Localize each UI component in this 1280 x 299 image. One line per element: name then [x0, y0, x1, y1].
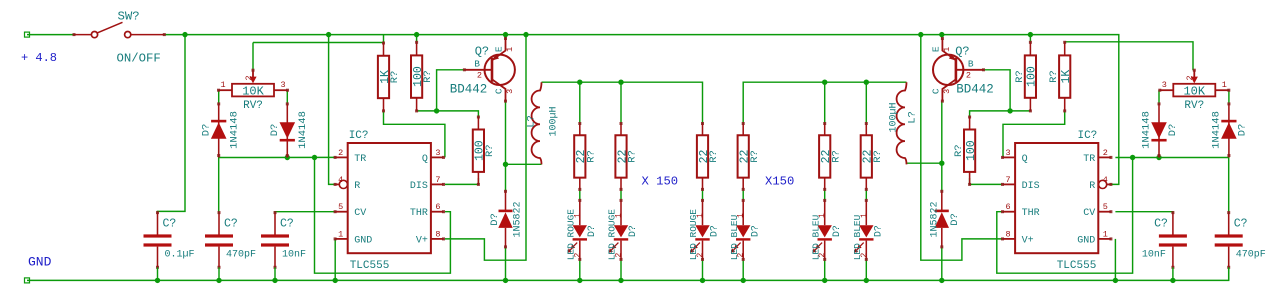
svg-text:D?: D? — [831, 225, 842, 237]
junction: right D5 to timing node — [1156, 155, 1161, 160]
svg-text:GND: GND — [1077, 235, 1095, 246]
wire: rail to left 100R top — [416, 35, 418, 43]
wire: left LED supply rail — [542, 82, 703, 123]
svg-text:7: 7 — [1006, 175, 1011, 185]
resistor R7 22 (LED branch 4) — [738, 122, 761, 191]
svg-text:1N4148: 1N4148 — [297, 111, 309, 149]
svg-text:R?: R? — [749, 150, 761, 163]
LED D11 LED BLEU (branch 5) — [810, 199, 842, 261]
wire: branch x=866.3 LED to ground — [865, 259, 867, 280]
wire: left DIS to 100R bottom — [445, 178, 479, 184]
svg-text:D?: D? — [1167, 124, 1179, 137]
svg-text:L?: L? — [907, 111, 919, 124]
svg-text:THR: THR — [1022, 208, 1040, 219]
wire: TR to THR loop (left) — [315, 158, 451, 274]
wire: Q2 base down to base node — [982, 70, 1010, 111]
diode D1 1N4148 (left, cathode up) — [201, 102, 241, 157]
op-amp U2 TLC555 (right timer) — [1001, 130, 1112, 272]
wire: branch x=866.3 resistor to LED — [865, 189, 867, 200]
svg-text:R?: R? — [389, 71, 401, 84]
svg-text:C?: C? — [1234, 218, 1248, 231]
svg-text:3: 3 — [280, 80, 285, 90]
svg-text:8: 8 — [435, 229, 440, 239]
wire: branch 1 drop — [579, 82, 581, 123]
svg-text:2: 2 — [1103, 148, 1108, 158]
svg-text:1N4148: 1N4148 — [229, 111, 241, 149]
wire: ground rail — [27, 267, 1229, 280]
svg-text:2: 2 — [737, 253, 746, 258]
diode D3 1N5822 (left schottky) — [489, 190, 524, 249]
junction: LED branch 5 — [822, 80, 827, 85]
inductor L2 100uH (right) — [889, 82, 919, 164]
svg-text:2: 2 — [477, 70, 482, 80]
svg-text:E: E — [930, 46, 941, 52]
svg-text:V+: V+ — [416, 235, 428, 246]
svg-text:THR: THR — [410, 208, 428, 219]
junction: TR/THR tie point — [312, 155, 317, 160]
svg-text:1: 1 — [338, 229, 343, 239]
svg-text:C: C — [930, 88, 941, 94]
svg-text:1: 1 — [818, 213, 827, 218]
wire: rail down to left 555 V+ pin — [445, 35, 526, 261]
svg-text:R?: R? — [872, 150, 884, 163]
wire: branch x=702.5 resistor to LED — [702, 189, 704, 200]
svg-text:BD442: BD442 — [956, 82, 994, 96]
svg-text:ON/OFF: ON/OFF — [117, 52, 161, 66]
junction: ground rail at x=1115.4 — [1113, 278, 1118, 283]
op-amp U1 TLC555 (left timer) — [334, 130, 445, 272]
junction: ground rail at x=824.7 — [822, 278, 827, 283]
wire: left 555 GND pin down — [334, 239, 336, 281]
svg-text:CV: CV — [354, 208, 366, 219]
svg-text:Q?: Q? — [955, 44, 969, 58]
resistor R11 100 (right) — [1014, 41, 1039, 113]
diode D4 1N5822 (right schottky) — [930, 190, 961, 249]
svg-text:1: 1 — [942, 47, 952, 52]
diode D2 1N4148 (left, cathode down) — [269, 102, 309, 157]
LED D10 LED BLEU (branch 4) — [729, 199, 761, 261]
svg-text:X 150: X 150 — [642, 174, 679, 188]
wire: schottky D3 to ground rail — [505, 247, 507, 281]
wire: timing node down to C 470pF — [218, 158, 220, 213]
resistor R10 100 (right base drive) — [953, 116, 978, 186]
svg-text:R: R — [1089, 181, 1095, 192]
node: +4.8 supply input end — [25, 32, 30, 37]
svg-text:R: R — [354, 181, 360, 192]
LED D8 LED ROUGE (branch 2) — [607, 199, 639, 261]
junction: ground rail at x=702.5 — [700, 278, 705, 283]
junction: base node tap — [434, 108, 439, 113]
svg-text:6: 6 — [435, 202, 440, 212]
svg-text:IC?: IC? — [1077, 130, 1097, 142]
wire: branch x=743.2 resistor to LED — [742, 189, 744, 200]
svg-text:R?: R? — [422, 70, 434, 83]
svg-text:RV?: RV? — [1184, 100, 1204, 112]
svg-text:1: 1 — [696, 213, 705, 218]
junction: ground rail at x=866.3 — [864, 278, 869, 283]
wire: Q2 collector down to D4 schottky — [941, 101, 943, 191]
svg-text:0.1µF: 0.1µF — [165, 250, 195, 261]
svg-text:TR: TR — [1083, 154, 1095, 165]
svg-text:Q: Q — [1022, 154, 1028, 165]
svg-text:2: 2 — [818, 253, 827, 258]
wire: right DIS to 100R bottom — [970, 178, 1003, 184]
wire: right CV to C 10nF — [1115, 211, 1173, 214]
svg-text:C?: C? — [163, 218, 177, 231]
svg-text:1N5822: 1N5822 — [930, 201, 941, 237]
svg-text:1: 1 — [573, 213, 582, 218]
junction: ground rail at x=579.8 — [577, 278, 582, 283]
junction: ground rail at x=743.2 — [741, 278, 746, 283]
svg-text:2: 2 — [1185, 75, 1195, 80]
svg-text:D?: D? — [586, 225, 597, 237]
potentiometer RV2 10K (right) — [1158, 69, 1230, 112]
transistor Q2 BD442 (right PNP) — [930, 37, 993, 103]
wire: branch x=743.2 LED to ground — [742, 259, 744, 280]
wire: coil bottom to collector node — [506, 163, 542, 165]
junction: rail to left Q1 emitter — [503, 32, 508, 37]
svg-text:D?: D? — [489, 213, 501, 226]
svg-text:10K: 10K — [1183, 85, 1205, 99]
svg-text:RV?: RV? — [243, 100, 263, 112]
resistor R5 22 (LED branch 2) — [615, 122, 638, 191]
wire: left pot pin3 to D2 cathode — [286, 90, 288, 104]
svg-text:TLC555: TLC555 — [1057, 260, 1097, 272]
wire: right Q out to 1K bottom — [1002, 111, 1064, 157]
wire: left pot wiper to 1K top — [253, 42, 384, 44]
svg-text:B: B — [474, 58, 480, 69]
svg-text:7: 7 — [435, 175, 440, 185]
wire: base node up to Q1 base — [437, 70, 465, 111]
wire: right TR to THR loop — [997, 158, 1133, 274]
wire: Q1 collector down to D3 schottky — [505, 101, 507, 191]
svg-text:L?: L? — [526, 115, 538, 128]
svg-text:R?: R? — [627, 150, 639, 163]
switch SW1 ON/OFF — [73, 10, 166, 66]
wire: right pot pin1 to D6 — [1228, 90, 1230, 104]
wire: V+ top rail (switch to right 555 reset pull-up) — [164, 35, 1119, 185]
svg-text:D?: D? — [269, 124, 281, 137]
svg-text:B: B — [968, 58, 974, 69]
diode D6 1N4148 (right, cathode up) — [1210, 102, 1248, 157]
junction: collector / coil node — [503, 162, 508, 167]
svg-text:100: 100 — [965, 140, 978, 161]
svg-text:+ 4.8: + 4.8 — [21, 51, 57, 65]
wire: right 1K stub — [1064, 41, 1066, 44]
resistor R8 22 (LED branch 5) — [819, 122, 842, 191]
svg-text:4: 4 — [338, 175, 343, 185]
svg-text:Q?: Q? — [475, 44, 489, 58]
svg-text:1: 1 — [1222, 80, 1227, 90]
svg-text:D?: D? — [749, 225, 760, 237]
svg-text:DIS: DIS — [1022, 181, 1040, 192]
LED D9 LED ROUGE (branch 3) — [688, 199, 720, 261]
svg-text:3: 3 — [505, 89, 515, 94]
svg-text:D?: D? — [1237, 124, 1249, 137]
svg-text:Q: Q — [422, 154, 428, 165]
svg-text:1K: 1K — [1060, 70, 1073, 84]
LED D12 LED BLEU (branch 6) — [852, 199, 884, 261]
wire: left timing node rail (diodes to TR) — [219, 156, 336, 158]
junction: ground rail at x=275 — [272, 278, 277, 283]
svg-text:3: 3 — [1006, 148, 1011, 158]
svg-text:1: 1 — [505, 47, 515, 52]
LED D7 LED ROUGE (branch 1) — [565, 199, 597, 261]
svg-text:C: C — [494, 88, 505, 94]
svg-text:SW?: SW? — [118, 10, 140, 24]
svg-text:2: 2 — [615, 253, 624, 258]
svg-text:1: 1 — [860, 213, 869, 218]
svg-text:V+: V+ — [1022, 235, 1034, 246]
svg-text:R?: R? — [484, 144, 496, 157]
svg-text:3: 3 — [435, 148, 440, 158]
junction: rail to right 100R — [1028, 32, 1033, 37]
svg-text:R?: R? — [1014, 70, 1026, 83]
wire: schottky D4 to ground rail — [941, 247, 943, 281]
wire: right timing node down to C 470pF — [1228, 158, 1230, 213]
svg-text:R?: R? — [1048, 70, 1060, 83]
resistor R1 1K (left) — [378, 42, 401, 113]
capacitor C2 470pF — [205, 211, 256, 280]
svg-text:IC?: IC? — [349, 130, 369, 142]
svg-text:1: 1 — [1103, 229, 1108, 239]
svg-text:10nF: 10nF — [282, 250, 306, 261]
wire: branch 6 drop — [865, 82, 867, 123]
svg-text:5: 5 — [1103, 202, 1108, 212]
junction: ground rail at x=1172.9 — [1170, 278, 1175, 283]
capacitor C4 10nF (right) — [1142, 211, 1187, 280]
junction: ground rail at x=219 — [216, 278, 221, 283]
node: ground rail left end — [25, 278, 30, 283]
svg-text:D?: D? — [709, 225, 720, 237]
svg-text:DIS: DIS — [410, 181, 428, 192]
wire: 1K top stub — [383, 35, 385, 43]
svg-text:CV: CV — [1083, 208, 1095, 219]
resistor R4 22 (LED branch 1) — [574, 122, 597, 191]
svg-text:C?: C? — [224, 218, 238, 231]
svg-text:1N4148: 1N4148 — [1210, 111, 1222, 149]
junction: ground rail at x=621 — [618, 278, 623, 283]
svg-text:3: 3 — [942, 89, 952, 94]
svg-text:100: 100 — [1026, 66, 1039, 87]
svg-text:10K: 10K — [242, 85, 264, 99]
svg-text:D?: D? — [873, 225, 884, 237]
svg-text:GND: GND — [28, 255, 52, 270]
junction: rail to left V+ drop — [523, 32, 528, 37]
junction: ground rail at x=505.5 — [503, 278, 508, 283]
junction: LED branch 6 — [864, 80, 869, 85]
svg-text:8: 8 — [1006, 229, 1011, 239]
svg-text:2: 2 — [696, 253, 705, 258]
svg-text:470pF: 470pF — [1236, 250, 1266, 261]
svg-text:2: 2 — [860, 253, 869, 258]
svg-text:E: E — [494, 46, 505, 52]
wire: right coil bottom to collector node — [907, 162, 942, 164]
svg-text:R?: R? — [585, 150, 597, 163]
svg-text:2: 2 — [966, 70, 971, 80]
resistor R6 22 (LED branch 3) — [697, 122, 720, 191]
svg-text:GND: GND — [354, 235, 372, 246]
svg-text:TLC555: TLC555 — [350, 260, 390, 272]
svg-text:2: 2 — [244, 75, 254, 80]
wire: right LED supply rail — [743, 82, 906, 123]
svg-text:R?: R? — [953, 144, 965, 157]
inductor L1 100uH (left) — [526, 82, 560, 164]
wire: branch x=579.8 resistor to LED — [579, 189, 581, 200]
wire: left base node (100R bottom to 100R top) — [417, 111, 479, 117]
svg-text:1N5822: 1N5822 — [513, 201, 524, 237]
wire: C 10nF to left CV pin — [275, 211, 335, 214]
junction: rail to left 100R — [414, 32, 419, 37]
wire: branch x=621 LED to ground — [620, 259, 622, 280]
junction: LED branch 1 — [577, 80, 582, 85]
junction: right collector / coil node — [939, 161, 944, 166]
wire: branch x=702.5 LED to ground — [702, 259, 704, 280]
wire: branch x=621 resistor to LED — [620, 189, 622, 200]
junction: ground rail at x=157.5 — [155, 278, 160, 283]
resistor R2 100 (left) — [411, 41, 434, 113]
svg-text:5: 5 — [338, 202, 343, 212]
svg-text:2: 2 — [573, 253, 582, 258]
wire: right 1K top to right pot wiper — [1065, 42, 1193, 70]
wire: branch x=579.8 LED to ground — [579, 259, 581, 280]
wire: left Q out to 1K bottom — [384, 111, 445, 157]
wire: right timing node rail — [1115, 157, 1228, 159]
svg-text:1: 1 — [737, 213, 746, 218]
wire: right base node line — [970, 111, 1031, 117]
svg-text:TR: TR — [354, 154, 366, 165]
svg-text:1N4148: 1N4148 — [1140, 111, 1152, 149]
svg-text:BD442: BD442 — [450, 82, 488, 96]
junction: rail to right Q2 emitter — [939, 32, 944, 37]
wire: rail down to C 0.1uF — [158, 35, 186, 213]
potentiometer RV1 10K (left) — [217, 69, 289, 112]
capacitor C3 10nF — [261, 211, 306, 280]
resistor R9 22 (LED branch 6) — [861, 122, 884, 191]
junction: LED branch 2 — [618, 80, 623, 85]
svg-text:470pF: 470pF — [226, 250, 256, 261]
wire: supply input to switch — [27, 34, 74, 36]
capacitor C1 0.1uF — [144, 211, 195, 280]
svg-text:C?: C? — [280, 218, 294, 231]
wire: rail to emitter — [505, 35, 507, 39]
wire: left pot pin1 to D1 anode — [218, 90, 220, 104]
svg-text:4: 4 — [1103, 175, 1108, 185]
resistor R3 100 (left base drive) — [473, 116, 496, 186]
junction: right TR/THR tie — [1130, 155, 1135, 160]
wire: branch x=824.7 LED to ground — [824, 259, 826, 280]
svg-text:R?: R? — [830, 150, 842, 163]
svg-text:100µH: 100µH — [889, 102, 900, 132]
wire: down to left pot wiper — [252, 43, 254, 71]
svg-text:2: 2 — [338, 148, 343, 158]
svg-text:100µH: 100µH — [549, 106, 560, 136]
svg-text:D?: D? — [201, 124, 213, 137]
capacitor C5 470pF (right) — [1215, 211, 1266, 280]
wire: rail to right emitter — [941, 35, 943, 39]
svg-text:1: 1 — [220, 80, 225, 90]
wire: branch 5 drop — [824, 82, 826, 123]
junction: right base node tap — [1007, 108, 1012, 113]
junction: rail to right V+ drop — [918, 32, 923, 37]
wire: branch 2 drop — [620, 82, 622, 123]
diode D5 1N4148 (right, cathode down) — [1140, 102, 1178, 157]
svg-text:D?: D? — [949, 213, 961, 226]
svg-text:1: 1 — [615, 213, 624, 218]
wire: right pot pin3 to D5 — [1158, 90, 1160, 104]
wire: branch x=824.7 resistor to LED — [824, 189, 826, 200]
svg-text:3: 3 — [1162, 80, 1167, 90]
svg-text:D?: D? — [627, 225, 638, 237]
svg-text:6: 6 — [1006, 202, 1011, 212]
junction: rail to left reset feed — [326, 32, 331, 37]
junction: ground rail at x=335.2 — [333, 278, 338, 283]
junction: ground rail at x=941.8 — [939, 278, 944, 283]
wire: rail down to right 555 V+ pin — [921, 35, 1002, 261]
resistor R12 1K (right) — [1048, 41, 1073, 113]
junction: D2 to timing node — [285, 155, 290, 160]
junction: top rail / decoupling cap — [182, 32, 187, 37]
svg-text:X150: X150 — [765, 174, 794, 188]
svg-text:C?: C? — [1154, 218, 1168, 231]
svg-text:10nF: 10nF — [1142, 250, 1166, 261]
svg-text:R?: R? — [708, 150, 720, 163]
transistor Q1 BD442 (left PNP) — [450, 37, 515, 103]
wire: rail to right 100R top — [1029, 35, 1031, 43]
wire: rail down to left 555 R pin — [329, 35, 336, 185]
wire: right 555 GND pin down — [1114, 239, 1116, 281]
